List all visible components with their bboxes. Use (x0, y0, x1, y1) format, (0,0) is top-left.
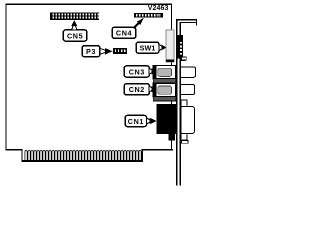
bracket rail (right line) (179, 22, 180, 185)
svg-text:CN3: CN3 (129, 67, 145, 76)
svg-text:CN4: CN4 (116, 29, 132, 38)
switch SW1 actuators through bracket (177, 35, 185, 61)
connector P3 (jumper block) (113, 48, 127, 54)
label P3 (82, 46, 100, 57)
connector CN2 (RCA jack body) (153, 83, 175, 96)
switch SW1 body (166, 30, 174, 62)
connector CN3 (RCA jack body) (153, 65, 175, 78)
label CN5 (63, 30, 87, 41)
svg-text:SW1: SW1 (140, 44, 156, 53)
edge connector baseline (21, 160, 143, 162)
D-sub shell (181, 107, 194, 134)
connector CN4 (single-row header) (134, 13, 163, 18)
label SW1 (136, 42, 159, 53)
arrow to CN4 (134, 18, 144, 28)
bracket screw (lower) (182, 140, 188, 143)
svg-text:CN2: CN2 (129, 85, 145, 94)
label CN2 (124, 84, 149, 95)
board bottom-right step (142, 150, 173, 161)
arrow to CN3 (149, 68, 156, 74)
board outline (6, 4, 172, 160)
bracket screw (upper) (182, 57, 187, 60)
svg-text:P3: P3 (86, 47, 96, 56)
arrow to CN2 (149, 86, 156, 92)
arrow to P3 (100, 48, 113, 55)
connector CN1 lower stub (169, 134, 175, 141)
connector CN3 barrel through bracket (180, 67, 195, 77)
label CN1 (125, 115, 146, 126)
svg-text:CN1: CN1 (128, 117, 144, 126)
connector CN1 (black body) (157, 104, 177, 134)
card edge connector fingers (25, 150, 141, 160)
D-sub top jackscrew tab (181, 100, 187, 106)
arrow to CN5 (71, 20, 77, 30)
D-sub bottom jackscrew tab (181, 133, 187, 139)
connector CN5 (dual-row pin header) (50, 12, 99, 20)
svg-text:V2463: V2463 (148, 5, 169, 12)
connector CN2 barrel through bracket (180, 84, 194, 94)
svg-text:CN5: CN5 (67, 31, 83, 40)
arrow to CN1 (146, 118, 156, 125)
connector CN3 base strip (153, 79, 175, 83)
bracket top flange (176, 19, 197, 25)
label CN4 (112, 27, 136, 38)
label CN3 (124, 66, 149, 77)
connector CN2 base strip (153, 97, 175, 101)
arrow to SW1 (159, 45, 167, 51)
bracket rail (left line) (176, 20, 177, 185)
